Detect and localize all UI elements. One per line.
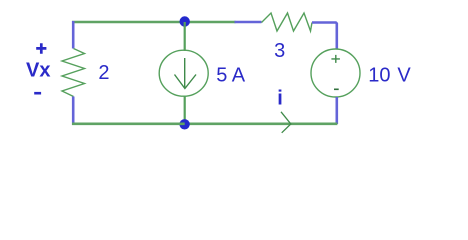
polarity mark "-" for Vx (blue) — [34, 92, 41, 95]
voltage source V1 plus marking — [331, 55, 340, 63]
resistor R1 top pin (blue) — [72, 21, 75, 49]
wire: top rail, resistor R1 top to node A — [72, 21, 185, 24]
current source I1 circle — [159, 50, 208, 96]
svg-text:10 V: 10 V — [368, 65, 411, 87]
wire: node B to resistor R1 bottom — [72, 123, 185, 126]
junction node B (bottom) — [179, 119, 189, 129]
current direction arrowhead for branch current i — [281, 112, 291, 133]
polarity mark "+" for Vx (blue) — [36, 43, 46, 54]
resistor R2 left pin (blue) — [235, 21, 262, 24]
current source I1 top lead — [184, 22, 186, 51]
voltage source V1 bottom pin (blue) — [335, 97, 338, 124]
wire: bottom rail, V1 bottom to node B — [185, 123, 338, 126]
current source I1 arrow (downward) — [175, 58, 197, 89]
resistor R1 bottom pin (blue) — [72, 97, 75, 126]
resistor R1 zigzag body (2 ohm) — [62, 49, 85, 97]
resistor R2 right pin and wire down to voltage source V1 (blue) — [312, 23, 337, 50]
resistor R2 zigzag body (3 ohm) — [262, 13, 313, 31]
junction node A (top) — [180, 16, 190, 26]
svg-text:i: i — [277, 88, 283, 110]
voltage source V1 minus marking — [334, 88, 339, 90]
wire: node A to resistor R2 left pin — [185, 21, 236, 24]
svg-text:2: 2 — [98, 62, 109, 84]
voltage source V1 circle — [311, 49, 360, 97]
svg-text:3: 3 — [274, 40, 285, 62]
svg-text:Vx: Vx — [26, 60, 50, 82]
current source I1 bottom lead — [184, 96, 186, 125]
svg-text:5 A: 5 A — [216, 65, 246, 87]
